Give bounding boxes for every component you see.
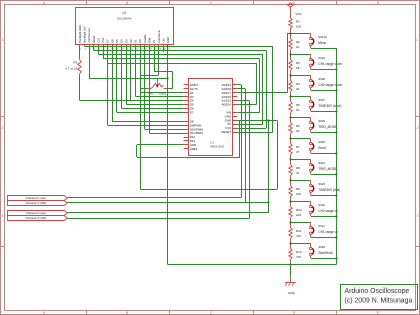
wire contrast-in (pin18) to VR1 left <box>158 46 160 75</box>
junction node 2 <box>289 74 291 76</box>
svg-text:220: 220 <box>296 213 301 217</box>
Arduino U1 right pins <box>232 84 237 86</box>
svg-text:100: 100 <box>296 25 301 29</box>
connector flag Channel 1 GND <box>8 201 68 206</box>
resistor R3 18 <box>290 55 292 60</box>
wire A1 to channel 2 gnd <box>237 100 249 102</box>
Arduino U1 left pins <box>184 84 189 86</box>
svg-text:Contrast in: Contrast in <box>157 29 161 43</box>
wire +5V pin19 short drop <box>163 46 165 50</box>
svg-text:VCC: VCC <box>296 12 303 16</box>
svg-text:DI: DI <box>152 40 156 43</box>
svg-text:2: 2 <box>2 126 4 130</box>
svg-text:D7: D7 <box>106 39 110 43</box>
svg-text:Channel 2 input: Channel 2 input <box>26 211 46 215</box>
supply VCC <box>288 3 294 7</box>
svg-text:Channel 1 input: Channel 1 input <box>26 196 46 200</box>
switch SW1 CH1 range up <box>291 222 311 224</box>
svg-text:TRIG_MODE: TRIG_MODE <box>318 125 337 129</box>
svg-text:R12: R12 <box>296 250 302 254</box>
junction node 5 <box>289 137 291 139</box>
resistor R7 47 <box>290 139 292 144</box>
svg-text:20: 20 <box>296 129 300 133</box>
svg-text:SW4: SW4 <box>318 161 325 165</box>
svg-text:R2: R2 <box>296 40 300 44</box>
title block <box>341 285 418 310</box>
LCD U2 pins <box>79 44 81 46</box>
potentiometer VR1 10k <box>147 88 151 90</box>
svg-text:GND: GND <box>166 37 170 43</box>
svg-text:Reset: Reset <box>92 36 96 43</box>
junction node 8 <box>289 200 291 202</box>
connector flag Channel 2 input <box>8 211 68 216</box>
resistor R9 100 <box>290 181 292 186</box>
resistor R2 10 <box>290 34 292 39</box>
junction node 6 <box>289 158 291 160</box>
svg-text:GND: GND <box>288 291 296 295</box>
wires LCD control to Arduino pins <box>84 46 86 48</box>
svg-text:R/W: R/W <box>148 37 152 43</box>
resistor R8 47 <box>290 160 292 165</box>
svg-text:R1: R1 <box>296 20 300 24</box>
resistor R11 470 <box>290 223 292 228</box>
wires LCD data bus to Arduino digital pins <box>140 46 142 92</box>
svg-text:D1: D1 <box>134 39 138 43</box>
svg-text:47: 47 <box>296 171 300 175</box>
svg-text:D0: D0 <box>138 39 142 43</box>
svg-text:SW9: SW9 <box>318 56 325 60</box>
svg-text:R4: R4 <box>296 82 300 86</box>
junction node 3 <box>289 95 291 97</box>
svg-text:Backlight GND: Backlight GND <box>78 25 82 43</box>
junction node 10 <box>289 242 291 244</box>
svg-text:D3: D3 <box>124 39 128 43</box>
wire channel 2 input <box>68 212 269 214</box>
svg-text:R6: R6 <box>296 124 300 128</box>
wire keypad ladder to A3 <box>237 92 287 94</box>
resistor R6 20 <box>290 118 292 123</box>
frame ticks bottom <box>86 311 88 315</box>
resistor R12 470 <box>290 244 292 249</box>
svg-text:SW2: SW2 <box>318 203 325 207</box>
svg-text:3: 3 <box>2 214 4 218</box>
svg-text:(c) 2009 N. Mitsunaga: (c) 2009 N. Mitsunaga <box>345 298 413 305</box>
junction node 7 <box>289 179 291 181</box>
resistor R10 220 <box>290 202 292 207</box>
connector flag Channel 1 input <box>8 196 68 201</box>
svg-text:SW1: SW1 <box>318 224 325 228</box>
switch SW8 CH2 range down <box>291 75 311 77</box>
frame ticks top <box>86 1 88 5</box>
svg-text:R1: R1 <box>74 61 78 65</box>
switch SW7 TIME/DIV (slow) <box>291 96 311 98</box>
wire R1 to D4 row <box>79 76 81 101</box>
svg-text:2: 2 <box>417 126 419 130</box>
svg-text:SW0: SW0 <box>318 245 325 249</box>
svg-text:4.7 or 10: 4.7 or 10 <box>65 67 77 71</box>
svg-text:1: 1 <box>2 38 4 42</box>
wire DI (pin17) to VR1 right <box>154 46 156 71</box>
switch SW6 TRIG_MODE <box>291 117 311 119</box>
svg-text:18: 18 <box>296 66 300 70</box>
svg-text:1: 1 <box>417 38 419 42</box>
svg-text:SW5: SW5 <box>318 140 325 144</box>
junction node 0 <box>289 32 291 34</box>
svg-text:R5: R5 <box>296 103 300 107</box>
svg-text:D4: D4 <box>120 39 124 43</box>
svg-text:U2: U2 <box>122 11 126 15</box>
svg-text:R3: R3 <box>296 61 300 65</box>
svg-text:20: 20 <box>296 87 300 91</box>
svg-text:D5: D5 <box>115 39 119 43</box>
resistor R5 20 <box>290 97 292 102</box>
svg-text:+5V: +5V <box>161 38 165 43</box>
svg-text:Enable: Enable <box>143 34 147 43</box>
svg-text:SW8: SW8 <box>318 77 325 81</box>
switch common rail <box>336 48 338 265</box>
svg-text:D2: D2 <box>129 39 133 43</box>
svg-text:D6: D6 <box>110 39 114 43</box>
switch SW5 Send <box>291 138 311 140</box>
svg-text:CS2: CS2 <box>101 37 105 43</box>
svg-text:470: 470 <box>296 234 301 238</box>
svg-text:R7: R7 <box>296 145 300 149</box>
connector flag Channel 2 GND <box>8 216 68 221</box>
svg-text:Contrast out: Contrast out <box>87 28 91 43</box>
wire A5 to channel 1 input <box>237 84 241 86</box>
svg-text:CS1: CS1 <box>96 37 100 43</box>
ground GND <box>290 265 292 277</box>
svg-text:AREF: AREF <box>190 147 198 151</box>
svg-text:Channel 2 GND: Channel 2 GND <box>26 216 46 220</box>
svg-text:SW3: SW3 <box>318 182 325 186</box>
svg-text:CH1 range down: CH1 range down <box>318 62 342 66</box>
svg-text:47: 47 <box>296 150 300 154</box>
switch SW9 CH1 range down <box>291 54 311 56</box>
svg-text:RESET: RESET <box>221 130 231 134</box>
wire GND drop from LCD pin20 <box>167 46 169 264</box>
switch SW0 Start/Hold <box>291 243 311 245</box>
svg-text:100: 100 <box>296 192 301 196</box>
svg-text:R8: R8 <box>296 166 300 170</box>
svg-text:SW7: SW7 <box>318 98 325 102</box>
LCD module U2 SG12864A <box>76 8 174 45</box>
switch SW2 CH2 range up <box>291 201 311 203</box>
svg-text:CH1 range up: CH1 range up <box>318 230 338 234</box>
junction node 9 <box>289 221 291 223</box>
svg-text:Channel 1 GND: Channel 1 GND <box>26 201 46 205</box>
svg-text:A0/D14: A0/D14 <box>221 103 231 107</box>
svg-text:10: 10 <box>296 45 300 49</box>
svg-text:3: 3 <box>417 214 419 218</box>
svg-text:R9: R9 <box>296 187 300 191</box>
bottom junction <box>289 263 291 265</box>
svg-text:SG12864A: SG12864A <box>117 17 132 21</box>
svg-text:Arduino Oscilloscope: Arduino Oscilloscope <box>345 288 410 295</box>
svg-text:1: 1 <box>80 49 81 51</box>
wire A4 to channel 1 gnd <box>237 88 245 90</box>
junction node 4 <box>289 116 291 118</box>
svg-text:Menu: Menu <box>318 41 326 45</box>
wire contrast-out (pin3) to VR1 wiper <box>89 46 91 79</box>
wire channel 1 input <box>68 197 242 199</box>
svg-text:TIME/DIV (slow): TIME/DIV (slow) <box>318 104 341 108</box>
switch SW4 TRIG_MODE <box>291 159 311 161</box>
svg-text:CH2 range up: CH2 range up <box>318 209 338 213</box>
svg-text:Backlight +5V: Backlight +5V <box>83 26 87 43</box>
wire gnd riser <box>268 120 270 213</box>
svg-text:TRIG_MODE: TRIG_MODE <box>318 167 337 171</box>
frame ticks right <box>416 116 420 118</box>
wire lower loop 1 <box>136 145 138 157</box>
wire channel 2 gnd <box>68 218 250 220</box>
resistor R1 (backlight, 4.7 or 10) <box>79 46 81 58</box>
svg-text:CH2 range down: CH2 range down <box>318 83 342 87</box>
svg-text:D7: D7 <box>190 111 194 115</box>
resistor R1 100 <box>289 18 292 28</box>
wire GND row <box>237 120 277 122</box>
svg-text:470: 470 <box>296 255 301 259</box>
svg-text:R11: R11 <box>296 229 302 233</box>
resistor R4 20 <box>290 76 292 81</box>
switch SW3 TIME/DIV (fast) <box>291 180 311 182</box>
svg-text:20: 20 <box>296 108 300 112</box>
svg-text:Send: Send <box>318 146 326 150</box>
switch SW10 Menu <box>291 33 311 35</box>
frame ticks left <box>1 116 5 118</box>
svg-text:ARDUINO: ARDUINO <box>210 145 225 149</box>
svg-text:SW6: SW6 <box>318 119 325 123</box>
svg-text:2: 2 <box>85 49 86 51</box>
wire channel 1 gnd <box>68 202 269 204</box>
Arduino U1 box <box>189 79 233 156</box>
svg-text:Start/Hold: Start/Hold <box>318 251 332 255</box>
wire lower loop 2 <box>140 89 142 190</box>
junction node 1 <box>289 53 291 55</box>
svg-text:SW10: SW10 <box>318 35 327 39</box>
svg-text:R10: R10 <box>296 208 302 212</box>
